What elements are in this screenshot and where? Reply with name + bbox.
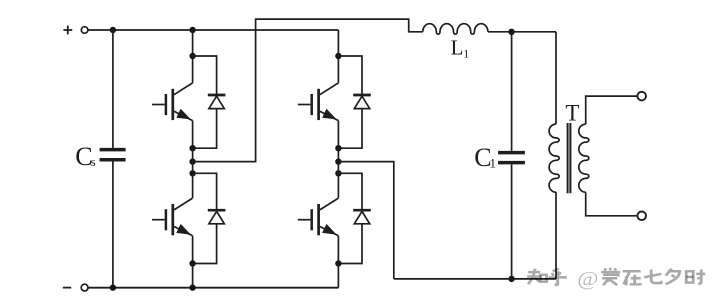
svg-text:T: T bbox=[565, 101, 579, 126]
wire D2 cathode lead bbox=[193, 173, 217, 210]
wire leg1 midpoint column bbox=[192, 148, 194, 198]
svg-text:L: L bbox=[451, 36, 464, 60]
junction dot Q3 collector node bbox=[335, 53, 341, 59]
wire node M2 to bottom return bbox=[338, 162, 393, 279]
transformer T secondary winding bbox=[579, 124, 589, 192]
junction dot node A bbox=[508, 29, 514, 35]
wire D1 anode lead bbox=[193, 109, 217, 149]
label L1 bbox=[451, 36, 470, 61]
wire Q4 emitter to bottom node bbox=[337, 236, 339, 264]
label Cs bbox=[75, 142, 95, 171]
wire node M1 to inductor L1 bbox=[193, 19, 423, 162]
transistor Q4 IGBT bbox=[298, 198, 339, 236]
junction dot leg1 top bbox=[189, 27, 195, 33]
diode D2 bbox=[208, 210, 226, 224]
wire Q1 emitter to midpoint bbox=[192, 121, 194, 149]
negative input terminal - bbox=[63, 284, 88, 291]
label C1 bbox=[474, 143, 496, 172]
wire leg2 rail to Q3 collector bbox=[337, 30, 339, 83]
inductor L1 bbox=[423, 24, 488, 34]
wire D1 cathode lead bbox=[193, 56, 217, 95]
wire D2 anode lead bbox=[193, 224, 217, 264]
svg-text:@: @ bbox=[577, 267, 598, 289]
junction dot leg1 bottom bbox=[189, 284, 195, 290]
wire D4 cathode lead bbox=[338, 173, 362, 210]
junction dot leg1 midpoint c bbox=[189, 170, 195, 176]
transistor Q3 IGBT bbox=[298, 83, 339, 121]
transistor Q1 IGBT bbox=[152, 83, 193, 121]
diode D4 bbox=[353, 210, 371, 224]
junction dot leg2 midpoint c bbox=[335, 170, 341, 176]
transformer T primary winding bbox=[549, 124, 559, 192]
diode D1 bbox=[208, 95, 226, 109]
junction dot Q1 collector node bbox=[189, 53, 195, 59]
junction dot leg2 midpoint node M2 bbox=[335, 158, 341, 164]
svg-text:1: 1 bbox=[463, 47, 469, 61]
junction dot C1 bottom bbox=[508, 276, 514, 282]
diode D3 bbox=[353, 95, 371, 109]
positive input terminal + bbox=[63, 26, 87, 35]
junction dot leg1 midpoint a bbox=[189, 145, 195, 151]
wire Q3 emitter to midpoint bbox=[337, 121, 339, 149]
watermark 知乎 @爱在七夕时 bbox=[527, 267, 705, 289]
wire D3 anode lead bbox=[338, 109, 362, 149]
top rail wire bbox=[88, 29, 338, 31]
capacitor Cs bbox=[100, 30, 126, 288]
wire bottom return bbox=[394, 278, 556, 280]
junction dot leg1 midpoint node M1 bbox=[189, 158, 195, 164]
output terminal bottom bbox=[637, 212, 646, 221]
transformer T core bbox=[568, 123, 571, 193]
wire leg1 to bottom rail bbox=[192, 264, 194, 288]
capacitor C1 bbox=[498, 32, 525, 279]
wire D3 cathode lead bbox=[338, 56, 362, 95]
wire secondary top lead bbox=[586, 96, 638, 124]
transformer T primary lead top bbox=[555, 32, 557, 124]
output terminal top bbox=[637, 92, 646, 101]
wire secondary bottom lead bbox=[586, 192, 638, 216]
junction dot Q4 emitter node bbox=[335, 260, 341, 266]
bottom rail wire bbox=[88, 287, 338, 289]
wire D4 anode lead bbox=[338, 224, 362, 264]
junction dot Q2 emitter node bbox=[189, 260, 195, 266]
transistor Q2 IGBT bbox=[152, 198, 193, 236]
transformer T primary lead bottom bbox=[555, 192, 557, 279]
junction dot leg2 midpoint a bbox=[335, 145, 341, 151]
svg-text:1: 1 bbox=[490, 155, 497, 170]
junction dot Cs top bbox=[110, 27, 116, 33]
wire Q2 emitter to bottom node bbox=[192, 236, 194, 264]
wire leg1 rail to Q1 collector bbox=[192, 30, 194, 83]
wire leg2 midpoint column bbox=[337, 148, 339, 198]
junction dot Cs bottom bbox=[110, 284, 116, 290]
svg-text:s: s bbox=[91, 154, 96, 169]
wire L1 to transformer primary bbox=[488, 31, 556, 33]
wire leg2 to bottom rail bbox=[337, 264, 339, 288]
